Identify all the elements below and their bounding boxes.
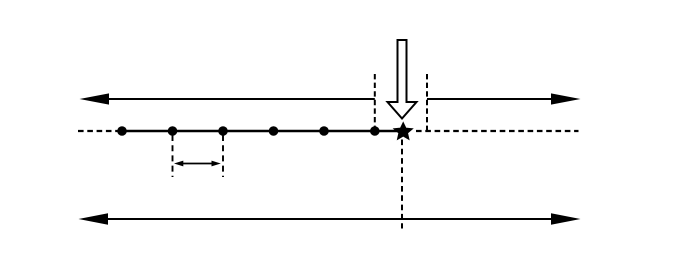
time axis double arrow xyxy=(100,218,560,220)
right uncertainty boundary dashed line xyxy=(426,74,428,131)
period dimension double arrow xyxy=(181,163,214,165)
next event star xyxy=(395,123,412,139)
left uncertainty boundary dashed line xyxy=(374,74,376,131)
event dot 1 xyxy=(117,126,127,136)
event dot 5 xyxy=(319,126,329,136)
hollow down arrow (predicted event marker) xyxy=(388,40,417,119)
event dot 4 xyxy=(269,126,279,136)
timeline dashed segment right xyxy=(416,130,579,132)
timeline dashed segment left xyxy=(78,130,120,132)
past interval arrow (points left) xyxy=(105,98,375,100)
period extension dashed line left xyxy=(172,135,174,177)
event dot 3 xyxy=(218,126,228,136)
future interval arrow (points right) xyxy=(427,98,555,100)
event dot 6 xyxy=(370,126,380,136)
period extension dashed line right xyxy=(222,135,224,177)
star drop dashed line xyxy=(401,140,403,229)
timeline solid segment xyxy=(120,130,404,132)
event dot 2 xyxy=(168,126,178,136)
